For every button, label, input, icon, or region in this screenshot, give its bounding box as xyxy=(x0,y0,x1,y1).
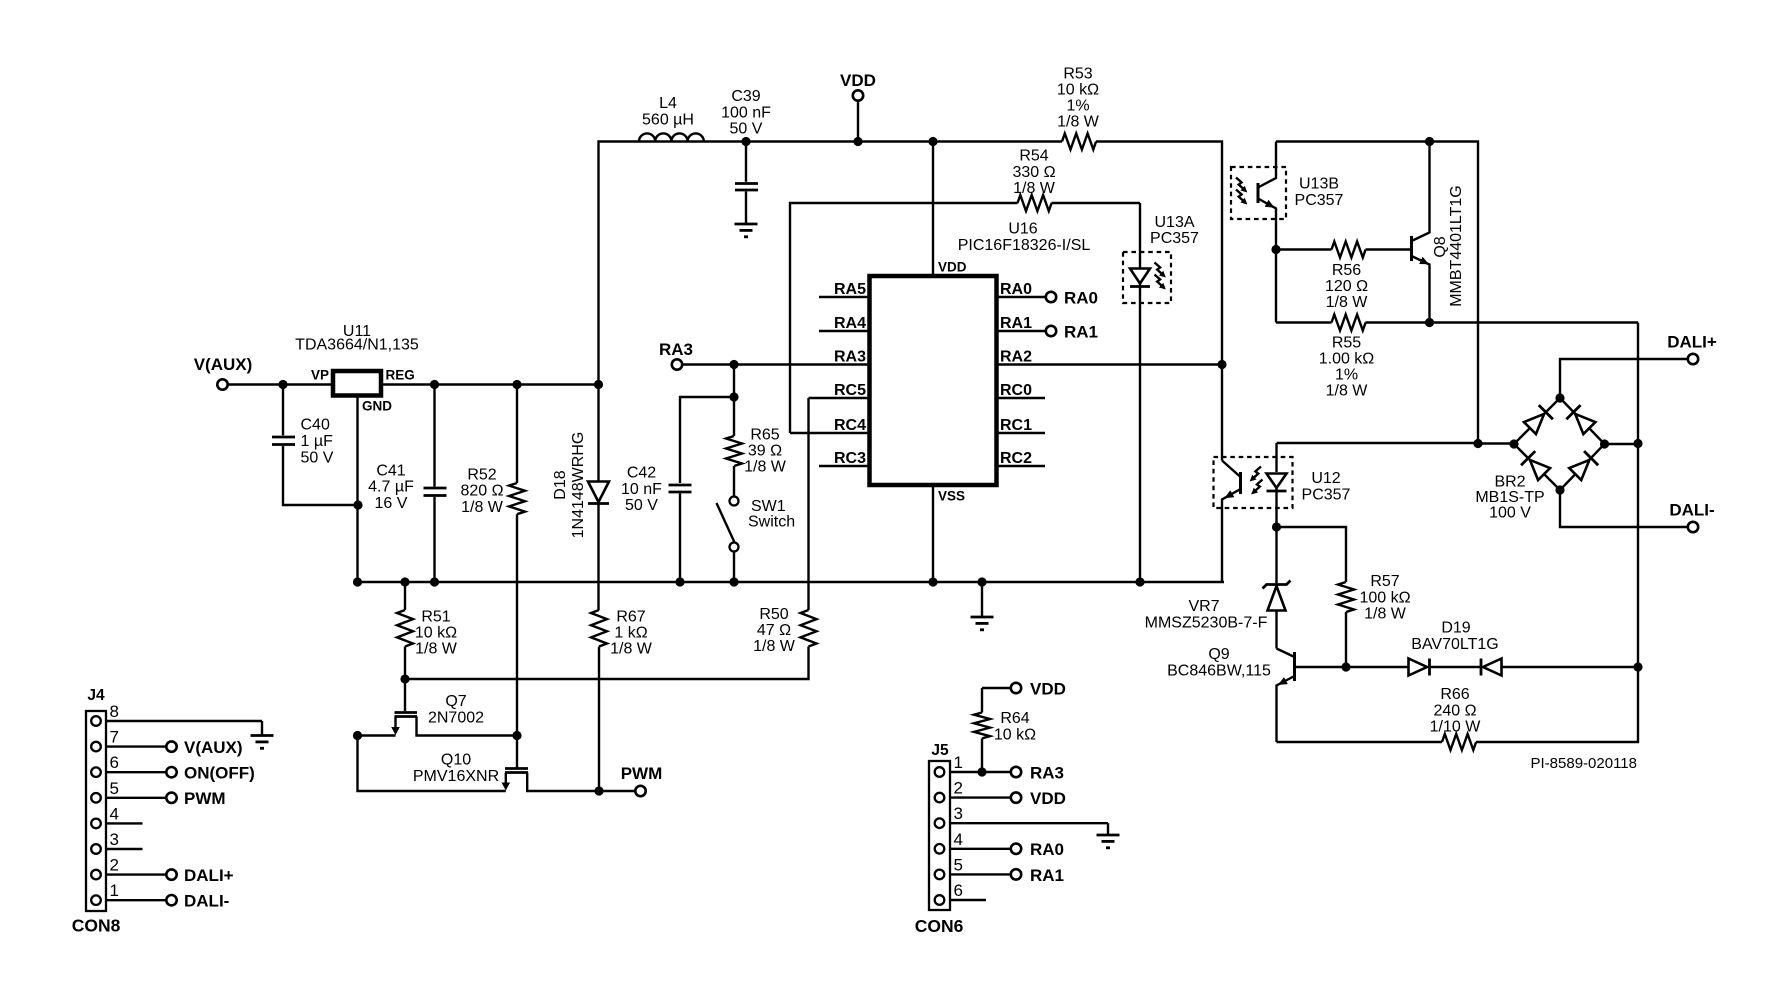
svg-text:1/8 W: 1/8 W xyxy=(1364,606,1407,623)
svg-text:1: 1 xyxy=(954,753,963,772)
junction U13B line / bridge left wire xyxy=(1473,439,1482,448)
svg-text:R67: R67 xyxy=(616,609,645,626)
transistor Q7 2N7002 xyxy=(391,679,517,736)
svg-text:RA3: RA3 xyxy=(659,340,693,359)
regulator U11 TDA3664 xyxy=(295,323,419,414)
svg-text:PI-8589-020118: PI-8589-020118 xyxy=(1531,755,1637,772)
svg-text:VDD: VDD xyxy=(1030,680,1066,699)
wire: RA3 branch down to C42/R65 xyxy=(733,365,735,398)
pin RA5 xyxy=(819,281,870,298)
junction R55 line / Q8 emitter xyxy=(1425,318,1434,327)
svg-text:RC1: RC1 xyxy=(1000,417,1032,434)
resistor R56 xyxy=(1276,242,1410,312)
svg-text:1 µF: 1 µF xyxy=(301,433,334,450)
svg-text:VDD: VDD xyxy=(938,260,967,275)
bridge BR2 MB1S-TP xyxy=(1475,398,1604,522)
svg-text:VSS: VSS xyxy=(938,489,965,504)
svg-text:C41: C41 xyxy=(376,462,405,479)
wire: Q7 source to left vertical xyxy=(358,734,396,736)
node VDD terminal top xyxy=(840,71,876,142)
svg-text:RA2: RA2 xyxy=(1000,349,1032,366)
pin RC4 xyxy=(790,417,870,434)
svg-text:MB1S-TP: MB1S-TP xyxy=(1475,489,1544,506)
svg-text:10 nF: 10 nF xyxy=(621,481,662,498)
opto U13A PC357 LED xyxy=(1123,203,1199,582)
svg-text:7: 7 xyxy=(110,728,119,747)
svg-text:BC846BW,115: BC846BW,115 xyxy=(1167,663,1271,680)
wire: U13B collector top wire xyxy=(1276,142,1478,444)
svg-text:PC357: PC357 xyxy=(1302,486,1351,503)
junction bridge right vertex xyxy=(1600,439,1609,448)
svg-text:820 Ω: 820 Ω xyxy=(460,483,503,500)
junction R57 / Q9 base / D19 xyxy=(1341,662,1350,671)
svg-text:10 kΩ: 10 kΩ xyxy=(994,726,1036,743)
pin 4 of J5 RA0 xyxy=(950,830,1064,859)
svg-text:MMSZ5230B-7-F: MMSZ5230B-7-F xyxy=(1145,615,1268,632)
resistor R51 xyxy=(397,582,458,679)
svg-text:C42: C42 xyxy=(627,465,656,482)
opto U12 PC357 xyxy=(1214,443,1351,582)
node DALI+ terminal xyxy=(1560,333,1717,399)
svg-text:Q7: Q7 xyxy=(445,693,466,710)
svg-text:PC357: PC357 xyxy=(1295,192,1344,209)
diode D18 1N4148WRHG xyxy=(552,385,609,611)
ground at J5 pin 3 xyxy=(1097,823,1120,848)
svg-text:RC0: RC0 xyxy=(1000,382,1032,399)
node RA0 terminal xyxy=(1046,289,1098,308)
svg-text:R52: R52 xyxy=(467,466,496,483)
pin 6 of J4 ON(OFF) xyxy=(106,753,255,782)
svg-text:ON(OFF): ON(OFF) xyxy=(184,764,255,783)
svg-text:RA1: RA1 xyxy=(1000,315,1032,332)
junction ground rail / U16 VSS xyxy=(928,577,937,586)
pin RC2 xyxy=(997,450,1046,467)
svg-text:U16: U16 xyxy=(1008,221,1037,238)
junction U11 GND / C40 return xyxy=(353,500,362,509)
svg-text:PWM: PWM xyxy=(184,789,226,808)
svg-text:MMBT4401LT1G: MMBT4401LT1G xyxy=(1448,185,1465,307)
pin 2 of J4 DALI+ xyxy=(106,856,234,885)
wire: R54 feed line with vertical to RC4 xyxy=(790,203,1018,433)
svg-text:5: 5 xyxy=(954,855,963,874)
junction ground rail / C42 xyxy=(675,577,684,586)
svg-text:2: 2 xyxy=(954,779,963,798)
svg-text:1.00 kΩ: 1.00 kΩ xyxy=(1319,351,1375,368)
svg-text:6: 6 xyxy=(110,753,119,772)
svg-text:4: 4 xyxy=(110,804,119,823)
wire: Q10 source return xyxy=(358,736,506,792)
svg-text:100 nF: 100 nF xyxy=(721,104,771,121)
capacitor C40 xyxy=(272,385,358,506)
svg-text:SW1: SW1 xyxy=(751,498,786,515)
svg-text:1/8 W: 1/8 W xyxy=(415,641,458,658)
wire: REG output line xyxy=(381,383,599,385)
svg-text:U13B: U13B xyxy=(1299,176,1339,193)
node DALI- terminal xyxy=(1560,490,1715,532)
svg-text:Q10: Q10 xyxy=(441,752,471,769)
svg-text:R51: R51 xyxy=(421,609,450,626)
svg-text:R66: R66 xyxy=(1440,686,1469,703)
svg-text:VP: VP xyxy=(311,368,329,383)
svg-text:RA0: RA0 xyxy=(1064,289,1098,308)
svg-text:240 Ω: 240 Ω xyxy=(1433,702,1476,719)
svg-text:DALI-: DALI- xyxy=(184,892,229,911)
junction Q7 source / ground branch xyxy=(353,731,362,740)
wire: V(AUX) to U11 VP xyxy=(228,383,333,385)
junction VDD rail / U16 VDD xyxy=(928,137,937,146)
svg-text:R64: R64 xyxy=(1000,710,1029,727)
pin 5 of J4 PWM xyxy=(106,779,226,808)
resistor R65 xyxy=(726,397,787,497)
svg-text:R54: R54 xyxy=(1019,148,1048,165)
wire: RA2 junction down to U12 collector xyxy=(1221,365,1223,461)
svg-text:L4: L4 xyxy=(659,95,677,112)
svg-text:5: 5 xyxy=(110,779,119,798)
svg-text:CON8: CON8 xyxy=(72,916,121,936)
pin RC5 xyxy=(809,382,870,399)
wire: U12 LED anode to bridge left line xyxy=(1277,442,1479,444)
svg-text:1 kΩ: 1 kΩ xyxy=(614,625,647,642)
svg-text:RC5: RC5 xyxy=(834,382,866,399)
svg-text:RA1: RA1 xyxy=(1064,323,1098,342)
svg-text:50 V: 50 V xyxy=(625,497,658,514)
junction PWM line / R67 xyxy=(594,786,603,795)
svg-text:1/8 W: 1/8 W xyxy=(461,499,504,516)
pin 4 of J4 xyxy=(106,804,143,823)
svg-text:PC357: PC357 xyxy=(1150,230,1199,247)
pin RC1 xyxy=(997,417,1046,434)
wire: bridge right vertex line xyxy=(1605,443,1639,445)
svg-text:RC3: RC3 xyxy=(834,450,866,467)
ground at J4 pin 8 xyxy=(251,721,274,748)
ground at VSS rail xyxy=(971,582,994,630)
pin RA0 xyxy=(997,281,1046,298)
pin 7 of J4 V(AUX) xyxy=(106,728,243,757)
svg-text:R56: R56 xyxy=(1332,262,1361,279)
wire: U11 GND down to bottom rail xyxy=(356,396,358,583)
svg-text:REG: REG xyxy=(386,368,415,383)
junction top wire / Q8 collector xyxy=(1425,137,1434,146)
pin 3 of J4 xyxy=(106,830,143,849)
node V(AUX) terminal xyxy=(194,355,253,390)
svg-text:GND: GND xyxy=(362,399,392,414)
svg-text:Q9: Q9 xyxy=(1208,646,1229,663)
wire: bridge left vertex line xyxy=(1478,442,1514,444)
svg-text:C39: C39 xyxy=(731,88,760,105)
svg-text:Q8: Q8 xyxy=(1432,236,1449,257)
junction J5 pin1 / R64 xyxy=(977,767,986,776)
wire: chip VSS to rail xyxy=(932,485,934,582)
svg-text:D19: D19 xyxy=(1441,620,1470,637)
switch SW1 xyxy=(717,497,796,583)
node RA3 terminal xyxy=(659,340,693,370)
junction RA3 line / R65 branch xyxy=(729,360,738,369)
svg-text:2N7002: 2N7002 xyxy=(428,709,484,726)
svg-text:2: 2 xyxy=(110,856,119,875)
junction ground rail / ground symbol xyxy=(977,577,986,586)
node VDD terminal at R64 xyxy=(982,680,1066,699)
svg-text:BR2: BR2 xyxy=(1494,474,1525,491)
resistor R55 xyxy=(1276,315,1638,400)
resistor R57 xyxy=(1277,527,1411,667)
junction R51 / R50 line / Q7 gate xyxy=(400,674,409,683)
pin 2 of J5 VDD xyxy=(950,779,1066,808)
svg-text:120 Ω: 120 Ω xyxy=(1325,278,1368,295)
pin RC0 xyxy=(997,382,1046,399)
junction right vertical / bridge right wire xyxy=(1633,439,1642,448)
junction VDD rail / C39 xyxy=(741,137,750,146)
resistor R64 xyxy=(974,688,1036,772)
wire: U13B emitter node down to R55 line xyxy=(1275,250,1277,323)
svg-text:6: 6 xyxy=(954,881,963,900)
svg-text:CON6: CON6 xyxy=(915,916,964,936)
svg-text:330 Ω: 330 Ω xyxy=(1012,164,1055,181)
svg-text:PWM: PWM xyxy=(621,764,663,783)
pin 1 of J4 DALI- xyxy=(106,881,229,910)
svg-text:RC4: RC4 xyxy=(834,417,866,434)
wire: RC5 down through R50 xyxy=(807,398,809,610)
svg-text:D18: D18 xyxy=(552,470,569,499)
wire: top rail from L4 corner to U13A corner xyxy=(599,142,1223,385)
svg-text:TDA3664/N1,135: TDA3664/N1,135 xyxy=(295,337,419,354)
svg-text:47 Ω: 47 Ω xyxy=(757,622,791,639)
svg-text:100 kΩ: 100 kΩ xyxy=(1359,589,1410,606)
svg-text:1/8 W: 1/8 W xyxy=(1326,294,1369,311)
transistor Q10 PMV16XNR xyxy=(413,736,635,792)
svg-text:50 V: 50 V xyxy=(301,449,334,466)
svg-text:C40: C40 xyxy=(301,417,330,434)
svg-text:RA0: RA0 xyxy=(1000,281,1032,298)
svg-text:DALI-: DALI- xyxy=(1669,501,1714,520)
svg-text:1/8 W: 1/8 W xyxy=(744,459,787,476)
svg-text:1/8 W: 1/8 W xyxy=(610,641,653,658)
svg-text:10 kΩ: 10 kΩ xyxy=(415,625,457,642)
pin RC3 xyxy=(819,450,870,467)
connector J4 CON8 xyxy=(72,687,121,936)
svg-text:V(AUX): V(AUX) xyxy=(184,738,243,757)
svg-text:1: 1 xyxy=(110,881,119,900)
label PI-8589-020118 xyxy=(1531,755,1637,772)
svg-text:1/8 W: 1/8 W xyxy=(753,638,796,655)
resistor R52 xyxy=(460,385,525,736)
pin 8 of J4 to ground xyxy=(106,702,262,721)
svg-text:R55: R55 xyxy=(1332,335,1361,352)
resistor R66 xyxy=(1277,667,1639,750)
junction REG line / R52 xyxy=(512,380,521,389)
svg-text:V(AUX): V(AUX) xyxy=(194,355,253,374)
svg-text:R53: R53 xyxy=(1063,66,1092,83)
transistor Q8 MMBT4401LT1G xyxy=(1412,142,1466,323)
wire: bottom ground rail xyxy=(358,581,1225,583)
wire: chip VDD from top rail xyxy=(932,142,934,277)
junction ground rail / C41 xyxy=(430,577,439,586)
junction REG line / C40 xyxy=(278,380,287,389)
svg-text:U13A: U13A xyxy=(1154,214,1194,231)
svg-text:J5: J5 xyxy=(931,742,949,759)
svg-text:RA3: RA3 xyxy=(1030,763,1064,782)
svg-text:BAV70LT1G: BAV70LT1G xyxy=(1411,636,1498,653)
svg-text:R50: R50 xyxy=(759,606,788,623)
svg-text:Switch: Switch xyxy=(748,514,795,531)
svg-text:R57: R57 xyxy=(1370,573,1399,590)
junction bridge left vertex xyxy=(1509,439,1518,448)
junction ground rail / U13A cathode xyxy=(1135,577,1144,586)
capacitor C41 xyxy=(368,385,446,583)
svg-text:RA3: RA3 xyxy=(834,349,866,366)
svg-text:100 V: 100 V xyxy=(1489,505,1531,522)
wire: RA3 to chip xyxy=(683,363,870,365)
svg-text:PIC16F18326-I/SL: PIC16F18326-I/SL xyxy=(958,237,1091,254)
junction ground rail / R51 xyxy=(400,577,409,586)
junction U13B emitter / R56 / R55 branch xyxy=(1271,245,1280,254)
pin RA4 xyxy=(819,315,870,332)
pin 6 of J5 xyxy=(950,881,986,900)
svg-text:R65: R65 xyxy=(750,427,779,444)
pin RA2 xyxy=(997,349,1223,366)
svg-text:PMV16XNR: PMV16XNR xyxy=(413,768,499,785)
svg-text:RA0: RA0 xyxy=(1030,840,1064,859)
junction bridge top vertex xyxy=(1555,393,1564,402)
svg-text:VDD: VDD xyxy=(1030,789,1066,808)
capacitor C42 xyxy=(621,397,734,582)
svg-text:1/8 W: 1/8 W xyxy=(1057,114,1100,131)
junction right vertical / D19 / R66 xyxy=(1633,662,1642,671)
svg-text:RA1: RA1 xyxy=(1030,866,1064,885)
junction U12 cathode / VR7 / R57 branch xyxy=(1272,522,1281,531)
svg-text:RC2: RC2 xyxy=(1000,450,1032,467)
node RA1 terminal xyxy=(1046,323,1098,342)
pin 5 of J5 RA1 xyxy=(950,855,1064,884)
svg-text:1N4148WRHG: 1N4148WRHG xyxy=(570,432,587,539)
svg-text:1/10 W: 1/10 W xyxy=(1430,719,1482,736)
transistor Q9 BC846BW,115 xyxy=(1167,646,1346,742)
svg-text:DALI+: DALI+ xyxy=(184,866,234,885)
junction Q7 drain / Q10 gate xyxy=(512,731,521,740)
svg-text:1%: 1% xyxy=(1066,98,1089,115)
svg-text:DALI+: DALI+ xyxy=(1667,333,1717,352)
resistor R67 xyxy=(591,609,653,792)
svg-text:1/8 W: 1/8 W xyxy=(1326,383,1369,400)
inductor L4 xyxy=(639,95,704,142)
svg-text:16 V: 16 V xyxy=(375,495,408,512)
svg-text:J4: J4 xyxy=(87,687,105,704)
svg-text:39 Ω: 39 Ω xyxy=(748,443,782,460)
pin 3 of J5 to ground xyxy=(950,804,1108,823)
svg-text:560 µH: 560 µH xyxy=(642,111,694,128)
resistor R50 xyxy=(405,606,817,679)
junction bridge bottom vertex xyxy=(1555,485,1564,494)
svg-text:4: 4 xyxy=(954,830,963,849)
svg-text:8: 8 xyxy=(110,702,119,721)
capacitor C39 xyxy=(721,88,771,223)
svg-text:10 kΩ: 10 kΩ xyxy=(1057,82,1099,99)
svg-text:3: 3 xyxy=(954,804,963,823)
svg-text:VDD: VDD xyxy=(840,71,876,90)
wire: right vertical from R55 to D19 xyxy=(1637,323,1639,668)
junction ground rail / U11 GND xyxy=(353,577,362,586)
junction REG line / C41 xyxy=(430,380,439,389)
node PWM terminal xyxy=(621,764,663,796)
svg-text:RA4: RA4 xyxy=(834,315,866,332)
svg-text:4.7 µF: 4.7 µF xyxy=(368,479,414,496)
junction REG line / L4 / D18 xyxy=(594,380,603,389)
opto U13B PC357 phototransistor xyxy=(1231,142,1344,250)
connector J5 CON6 xyxy=(915,742,964,936)
svg-text:50 V: 50 V xyxy=(730,121,763,138)
svg-text:RA5: RA5 xyxy=(834,281,866,298)
diode D19 BAV70LT1G xyxy=(1346,620,1638,676)
junction RA2 line / U12 collector line xyxy=(1217,360,1226,369)
resistor R54 xyxy=(1012,148,1140,212)
svg-text:VR7: VR7 xyxy=(1188,598,1219,615)
svg-text:3: 3 xyxy=(110,830,119,849)
pin RA1 xyxy=(997,315,1046,332)
pin 1 of J5 RA3 xyxy=(950,753,1064,782)
ground below C39 xyxy=(735,224,758,237)
junction VDD rail / VDD terminal xyxy=(853,137,862,146)
svg-text:1%: 1% xyxy=(1335,367,1358,384)
svg-text:U12: U12 xyxy=(1311,470,1340,487)
resistor R53 xyxy=(1057,66,1100,150)
zener VR7 MMSZ5230B-7-F xyxy=(1145,527,1291,649)
junction ground rail / SW1 xyxy=(729,577,738,586)
junction R65 / C42 branch xyxy=(729,392,738,401)
svg-text:1/8 W: 1/8 W xyxy=(1013,180,1056,197)
ic U16 PIC16F18326-I/SL xyxy=(870,221,1091,504)
pin RA3 xyxy=(834,349,866,366)
